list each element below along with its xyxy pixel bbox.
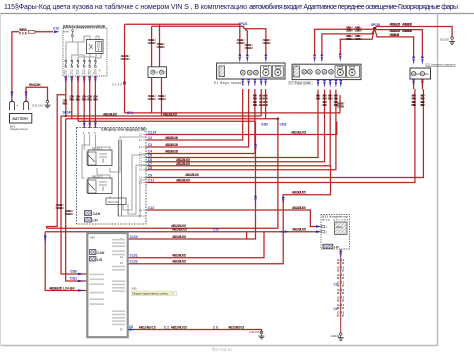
svg-text:RDGN: RDGN xyxy=(69,98,74,102)
svg-text:C410: C410 xyxy=(261,123,268,127)
left headlamp label xyxy=(214,81,245,85)
arrow into module pin2 xyxy=(70,277,84,283)
splice S3 flank labels xyxy=(261,123,287,127)
svg-text:BK: BK xyxy=(337,314,345,318)
right headlamp bottom pin labels xyxy=(316,94,339,108)
svg-text:C11: C11 xyxy=(148,179,154,183)
svg-text:C8: C8 xyxy=(148,166,152,170)
wire splice to ground right xyxy=(375,27,453,38)
wire BJB col1 jog to bus1 vertical xyxy=(47,76,66,228)
svg-text:E21 Указатель поворота: E21 Указатель поворота xyxy=(426,63,456,67)
bus1 riser label xyxy=(337,102,345,109)
col1 wire label xyxy=(63,99,68,106)
svg-text:CAN: CAN xyxy=(93,212,101,216)
wire relay out2 to bus2 xyxy=(161,78,163,117)
row210 label xyxy=(292,206,306,210)
relay box K20 xyxy=(148,67,167,78)
svg-text:C132: C132 xyxy=(130,260,138,264)
svg-text:CD34-GN: CD34-GN xyxy=(121,57,130,61)
splice right wire labels xyxy=(389,29,412,37)
svg-text:C2: C2 xyxy=(164,325,169,329)
svg-text:F1: F1 xyxy=(64,72,68,76)
svg-text:CD34-GN: CD34-GN xyxy=(157,45,165,49)
svg-text:F5: F5 xyxy=(88,72,92,76)
fuses row in BJB xyxy=(65,60,96,67)
svg-text:AB12-BU 0.5: AB12-BU 0.5 xyxy=(402,22,412,26)
wire BJB col6 to BCM xyxy=(94,76,96,128)
svg-text:автомобиля входит Адаптивное п: автомобиля входит Адаптивное переднее ос… xyxy=(249,3,458,11)
svg-text:50A: 50A xyxy=(19,32,28,36)
svg-text:SP140: SP140 xyxy=(63,110,73,114)
BCM control box xyxy=(77,128,147,225)
svg-text:Модуль адаптивного освещ.: Модуль адаптивного освещ. xyxy=(133,292,169,296)
rows140-153 labels xyxy=(165,136,178,154)
ground G31 xyxy=(338,333,344,341)
svg-text:C130: C130 xyxy=(130,235,138,239)
svg-text:A30: A30 xyxy=(132,287,137,291)
connector C1 arrow into BJB xyxy=(53,27,60,34)
left vertical labels xyxy=(56,203,73,216)
svg-text:AB12-BU 0.5: AB12-BU 0.5 xyxy=(389,29,400,33)
svg-text:CD34-GN: CD34-GN xyxy=(56,206,64,210)
ground G30 xyxy=(259,331,265,339)
arrow into sensor pin2 xyxy=(316,230,322,233)
rows177-182 labels xyxy=(176,94,425,183)
svg-text:F6: F6 xyxy=(93,72,97,76)
svg-text:AB12-BU 0.5: AB12-BU 0.5 xyxy=(172,228,187,232)
svg-text:BK: BK xyxy=(337,306,345,310)
aux lamp label xyxy=(426,63,456,67)
wire L1 splice3 down and left xyxy=(47,119,278,229)
svg-text:CD34-GN: CD34-GN xyxy=(420,103,425,107)
splice S2 blue label xyxy=(239,22,248,26)
wire splice2 branch right xyxy=(244,28,266,57)
wire bus3 left down to module pin2 xyxy=(66,119,87,281)
rows157-170 labels xyxy=(176,158,199,177)
aux lamp bulbs xyxy=(411,72,429,77)
relay K1 in BJB xyxy=(87,40,104,54)
aux lamp box E3 xyxy=(410,68,431,79)
svg-text:AB12-BU 0.5: AB12-BU 0.5 xyxy=(402,29,412,33)
svg-text:E1 Фара левая: E1 Фара левая xyxy=(214,81,241,85)
CAN icon 2 in BCM xyxy=(85,218,99,223)
svg-text:SP1: SP1 xyxy=(127,111,133,115)
svg-text:AB12-BU 0.5: AB12-BU 0.5 xyxy=(165,143,178,147)
svg-text:AB12-BU 0.5: AB12-BU 0.5 xyxy=(228,325,244,329)
BCM box label xyxy=(101,128,145,132)
frame top separator xyxy=(0,13,474,15)
wire BJB col5 to BCM xyxy=(89,76,91,128)
arrow into module pin1 xyxy=(70,270,84,276)
ground G31 label xyxy=(331,334,340,338)
svg-text:F4: F4 xyxy=(82,72,86,76)
inline connector on L2 xyxy=(279,230,289,233)
left headlamp internals xyxy=(219,66,283,77)
AFS module internals xyxy=(90,236,126,332)
svg-text:AB12-BU 0.5: AB12-BU 0.5 xyxy=(291,130,306,134)
battery clamp negative xyxy=(24,101,32,110)
svg-text:AB12-BU 0.5: AB12-BU 0.5 xyxy=(139,325,156,329)
relay out labels xyxy=(148,94,166,101)
wire BCM to RH pin4 xyxy=(139,90,336,172)
wire L2 to module pin3 xyxy=(45,232,87,291)
sensor wire labels xyxy=(337,258,345,318)
wire BCM to LH pin2 xyxy=(139,89,249,149)
wire sensor down to ground xyxy=(340,249,342,334)
wire BJB col2 to bus3 xyxy=(71,76,73,119)
wire top bus B xyxy=(152,26,244,27)
svg-text:AB12-BU 0.5: AB12-BU 0.5 xyxy=(172,235,186,239)
right headlamp box E2 xyxy=(292,64,361,79)
wire BJB col3 to bus4 xyxy=(77,76,79,121)
wire bus3 xyxy=(66,118,278,120)
svg-text:LIN-BK: LIN-BK xyxy=(63,286,76,290)
svg-text:AB12-BU 0.5: AB12-BU 0.5 xyxy=(185,173,199,177)
svg-text:AB12-BU 0.5: AB12-BU 0.5 xyxy=(176,162,190,166)
relay R1 in BCM xyxy=(87,146,112,165)
left headlamp box E1 xyxy=(217,63,285,79)
svg-text:CD34-GN: CD34-GN xyxy=(263,41,271,45)
svg-text:RDGN: RDGN xyxy=(82,98,87,102)
ground G2 top right xyxy=(449,37,455,45)
wire BJB col1 down to splice xyxy=(65,95,67,116)
wire battery positive to BJB xyxy=(12,32,53,102)
wire bus4 xyxy=(78,120,256,122)
svg-text:CD34-GN: CD34-GN xyxy=(158,97,166,101)
ground G1 label xyxy=(32,104,43,108)
svg-text:LIN: LIN xyxy=(93,219,99,223)
svg-text:AB12-BU 0.5: AB12-BU 0.5 xyxy=(292,191,306,195)
svg-text:GD120: GD120 xyxy=(440,37,449,41)
wire L2 LIN bus xyxy=(45,231,316,233)
arrow on sensor ground wire xyxy=(340,251,342,259)
splice ground wire labels xyxy=(389,22,412,26)
arrow into module pin3 xyxy=(78,289,84,292)
svg-text:C4: C4 xyxy=(334,307,338,311)
left headlamp bottom pin labels xyxy=(253,94,268,108)
svg-text:E2 Фара прав.: E2 Фара прав. xyxy=(289,81,311,85)
splice left wire labels xyxy=(346,26,362,42)
sensor box label xyxy=(322,215,349,222)
stub above r1 xyxy=(246,232,248,239)
svg-text:56b: 56b xyxy=(425,73,430,76)
splice S1 dot xyxy=(65,115,67,117)
right headlamp label xyxy=(289,81,313,85)
frame left border xyxy=(0,14,2,346)
row134 label xyxy=(291,130,306,134)
svg-text:C10: C10 xyxy=(53,27,59,31)
svg-text:CAN: CAN xyxy=(97,251,105,255)
wire battery negative to ground xyxy=(26,87,47,102)
wire BJB col4 to BCM xyxy=(83,76,85,128)
svg-text:BK: BK xyxy=(337,261,345,265)
svg-text:CD34-GN: CD34-GN xyxy=(148,41,156,45)
svg-text:C131: C131 xyxy=(130,254,138,258)
LH top riser labels xyxy=(237,38,271,50)
sensor wire inline labels blue xyxy=(334,283,338,312)
svg-text:CJB Центр. блок предохр.(CJB): CJB Центр. блок предохр.(CJB) xyxy=(101,128,145,132)
splice S4 blue label xyxy=(371,23,380,27)
svg-text:AB12-BU 0.5: AB12-BU 0.5 xyxy=(163,112,177,116)
BJB bottom pin numbers xyxy=(64,69,101,76)
terminal on drop xyxy=(123,82,126,85)
connector arrow battery negative xyxy=(25,92,27,100)
wire BCM to aux lamp pin1 xyxy=(139,89,415,185)
svg-text:CD34-GN: CD34-GN xyxy=(355,29,362,33)
svg-text:AB12-BU 0.5: AB12-BU 0.5 xyxy=(389,22,400,26)
arrows into aux lamp top xyxy=(412,57,423,65)
module M1 in BCM xyxy=(106,198,126,205)
svg-text:Micro 30: Micro 30 xyxy=(108,200,119,204)
svg-text:RDGN: RDGN xyxy=(63,102,68,106)
splice S4 dot xyxy=(373,27,375,29)
svg-text:AB12-BU 0.5: AB12-BU 0.5 xyxy=(292,206,306,210)
svg-text:AB12-BU 0.5: AB12-BU 0.5 xyxy=(49,286,62,290)
svg-text:C8: C8 xyxy=(213,325,218,329)
svg-text:S130: S130 xyxy=(112,82,122,86)
arrows below left headlamp xyxy=(242,79,267,87)
svg-text:AB12-BU 0.5: AB12-BU 0.5 xyxy=(292,228,306,232)
BCM top pin numbers xyxy=(83,131,96,135)
frame right border xyxy=(437,14,439,346)
svg-text:C2: C2 xyxy=(148,136,152,140)
svg-text:CD34-GN: CD34-GN xyxy=(316,97,321,101)
title text xyxy=(4,3,458,11)
sensor LIN icon xyxy=(323,244,339,249)
svg-text:fibr-rsa.ru: fibr-rsa.ru xyxy=(212,347,232,352)
arrow on r3 riser xyxy=(282,197,284,205)
BCM pin stub 16 xyxy=(139,214,147,218)
wire bus1 xyxy=(125,95,341,113)
connector arrows below BJB xyxy=(65,77,97,85)
wire LH pin4 to bus2 xyxy=(260,89,262,116)
wire top bus A xyxy=(125,23,240,25)
svg-text:BK: BK xyxy=(337,284,345,288)
CAN icon 1 in BCM xyxy=(85,211,101,217)
svg-text:фар датчик: фар датчик xyxy=(322,218,349,222)
svg-text:C3: C3 xyxy=(334,283,338,287)
ground wire labels xyxy=(139,325,245,329)
bus2 wire label xyxy=(103,111,177,116)
svg-text:CD34-GN: CD34-GN xyxy=(65,212,73,216)
wire module pin r3 to RH pin4 via LIN riser xyxy=(128,166,330,264)
BCM internal wiring xyxy=(82,135,146,217)
wire bus2 xyxy=(61,115,261,117)
relay riser labels xyxy=(148,38,165,49)
svg-text:C412: C412 xyxy=(280,123,287,127)
svg-text:AB12-BU 0.5: AB12-BU 0.5 xyxy=(103,112,117,116)
wire BCM pin to bus4 area xyxy=(139,122,337,137)
splice S1 blue label xyxy=(63,110,73,114)
fuse F30 label on battery feed xyxy=(19,28,35,36)
svg-text:C310: C310 xyxy=(70,270,77,274)
wire splice to aux pin2 xyxy=(375,28,423,58)
svg-text:RDGN: RDGN xyxy=(76,98,81,102)
svg-text:AB12-BU 0.5: AB12-BU 0.5 xyxy=(172,260,186,264)
wire module pin r2 up xyxy=(128,232,264,258)
svg-text:CD34-GN: CD34-GN xyxy=(334,103,339,107)
splice S3 dot xyxy=(277,118,279,120)
wire BCM to RH pin1 xyxy=(139,90,318,160)
wire splice to RH pin1 xyxy=(315,28,375,56)
svg-text:LIN: LIN xyxy=(97,258,103,262)
top A drop label xyxy=(121,54,130,61)
svg-text:AB12-BU 0.5: AB12-BU 0.5 xyxy=(165,136,178,140)
svg-text:C3: C3 xyxy=(148,143,152,147)
svg-text:GD130: GD130 xyxy=(32,104,43,108)
connector arrow battery positive xyxy=(11,92,13,100)
svg-text:CD34-GN: CD34-GN xyxy=(253,103,258,107)
svg-text:GD134: GD134 xyxy=(250,330,260,334)
wire relay pin2 up to top bus A xyxy=(159,24,161,67)
svg-text:BATTERY: BATTERY xyxy=(13,117,29,121)
svg-text:AB12-BU 0.5: AB12-BU 0.5 xyxy=(172,254,186,258)
wire module pin r1 to bus4 xyxy=(128,121,255,239)
L1 wire label xyxy=(171,224,186,228)
svg-text:F3: F3 xyxy=(76,72,80,76)
wire top A left drop xyxy=(124,24,126,113)
relay R2 in BCM xyxy=(87,174,112,193)
pin r1 labels xyxy=(130,235,187,239)
ground G2 label xyxy=(440,37,449,41)
svg-text:CD34-GN: CD34-GN xyxy=(245,46,253,50)
svg-text:CD34-GN: CD34-GN xyxy=(328,97,333,101)
svg-text:C9: C9 xyxy=(148,174,152,178)
module note text xyxy=(132,287,137,291)
svg-text:C6: C6 xyxy=(129,325,133,329)
sensor box A31 xyxy=(321,215,350,250)
svg-text:CD34-GN: CD34-GN xyxy=(322,103,327,107)
arrow into sensor pin1 xyxy=(316,225,322,228)
svg-text:RDGN: RDGN xyxy=(93,98,98,102)
pin r2 labels xyxy=(130,254,187,258)
ground G1 near battery xyxy=(45,100,51,108)
ground G30 label xyxy=(250,330,260,334)
svg-text:LIN: LIN xyxy=(334,245,339,249)
svg-text:HALL: HALL xyxy=(336,225,343,229)
r3 riser label xyxy=(292,191,306,195)
wire splice to RH pin3 xyxy=(340,28,374,55)
wire splice to RH pin2 xyxy=(322,28,375,56)
svg-text:CD34-GN: CD34-GN xyxy=(355,37,362,41)
wire BCM to RH pin3 xyxy=(139,90,330,168)
arrows into right headlamp top xyxy=(313,54,341,63)
battery BT1 xyxy=(10,114,32,124)
connector arrows into BCM xyxy=(83,121,97,129)
wire BCM to RH pin2 xyxy=(139,90,325,164)
module pin3 wire label xyxy=(49,286,76,290)
arrows below right headlamp xyxy=(317,80,342,88)
wire BCM to LH pin1 xyxy=(139,89,243,142)
pin r3 labels xyxy=(130,260,187,264)
wire relay pin1 up xyxy=(151,26,153,67)
svg-text:C13: C13 xyxy=(148,206,154,210)
L2 labels xyxy=(172,228,306,232)
svg-text:BK: BK xyxy=(337,269,345,273)
module yellow note xyxy=(132,291,177,296)
BJB box label xyxy=(63,24,106,28)
svg-text:C55: C55 xyxy=(213,228,219,232)
wire splice to aux pin1 xyxy=(375,28,414,58)
svg-text:C214: C214 xyxy=(148,130,156,134)
arrows below aux lamp xyxy=(412,79,423,88)
arrows into LH headlamp top xyxy=(239,55,268,63)
wire BCM to aux lamp pin2 xyxy=(139,89,423,180)
wire module ground xyxy=(128,330,261,333)
arrow on ground wire xyxy=(129,325,135,331)
battery clamp positive xyxy=(10,101,20,110)
svg-text:AB12-BU 0.5: AB12-BU 0.5 xyxy=(389,33,399,37)
svg-text:BK: BK xyxy=(337,299,345,303)
wire aux pin1 down xyxy=(413,79,415,89)
svg-text:AB12-BU 0.5: AB12-BU 0.5 xyxy=(176,178,190,182)
sensor pin marks xyxy=(322,225,328,234)
BJB internal wiring xyxy=(63,30,101,61)
battery negative wire label xyxy=(29,83,42,87)
svg-text:CD34-GN: CD34-GN xyxy=(148,97,156,101)
arrow connector on L2 drop xyxy=(44,236,46,244)
relay K20 bulbs xyxy=(151,70,168,75)
svg-text:115§Фары-Код цвета кузова на т: 115§Фары-Код цвета кузова на табличке с … xyxy=(4,3,247,11)
svg-text:F2: F2 xyxy=(70,72,74,76)
fuse box BJB xyxy=(63,28,107,76)
wire bus2 left down to module pin1 xyxy=(61,116,87,274)
wire drop to LH pin2 xyxy=(244,28,248,57)
right headlamp internals xyxy=(294,66,360,77)
wire splice2 drop xyxy=(239,24,241,56)
wire aux pin2 down xyxy=(421,79,423,89)
svg-text:BN31-BK: BN31-BK xyxy=(29,83,42,87)
wire BCM to LH pin3 xyxy=(139,89,255,156)
svg-text:BK: BK xyxy=(337,276,345,280)
frame bottom border xyxy=(1,345,438,347)
arrows on bus4 riser xyxy=(254,144,256,204)
svg-text:GD131: GD131 xyxy=(331,334,340,338)
svg-text:Аккумулятор: Аккумулятор xyxy=(10,127,28,131)
svg-text:C311: C311 xyxy=(70,277,77,281)
svg-text:CD34-GN: CD34-GN xyxy=(346,37,353,41)
watermark xyxy=(212,347,232,352)
terminal label xyxy=(112,82,122,86)
col2-6 wire labels xyxy=(69,95,98,102)
svg-text:BK: BK xyxy=(337,291,345,295)
svg-text:AB12-BU 0.5: AB12-BU 0.5 xyxy=(171,325,187,329)
svg-text:RDGN: RDGN xyxy=(87,98,92,102)
svg-text:CD34-GN: CD34-GN xyxy=(237,41,245,45)
battery label xyxy=(10,124,28,131)
svg-text:AB12-BU 0.5: AB12-BU 0.5 xyxy=(165,150,178,154)
wire BCM to sensor pin1 xyxy=(139,206,316,227)
wire LH pin5 to bus3 xyxy=(265,89,267,119)
sensor internal block xyxy=(335,222,348,235)
wire relay out1 to bus1 xyxy=(151,78,153,113)
svg-text:A30: A30 xyxy=(90,236,95,240)
svg-text:CD34-GN: CD34-GN xyxy=(346,29,353,33)
module A30 AFS xyxy=(87,233,127,337)
svg-text:CD34-GN: CD34-GN xyxy=(411,103,416,107)
